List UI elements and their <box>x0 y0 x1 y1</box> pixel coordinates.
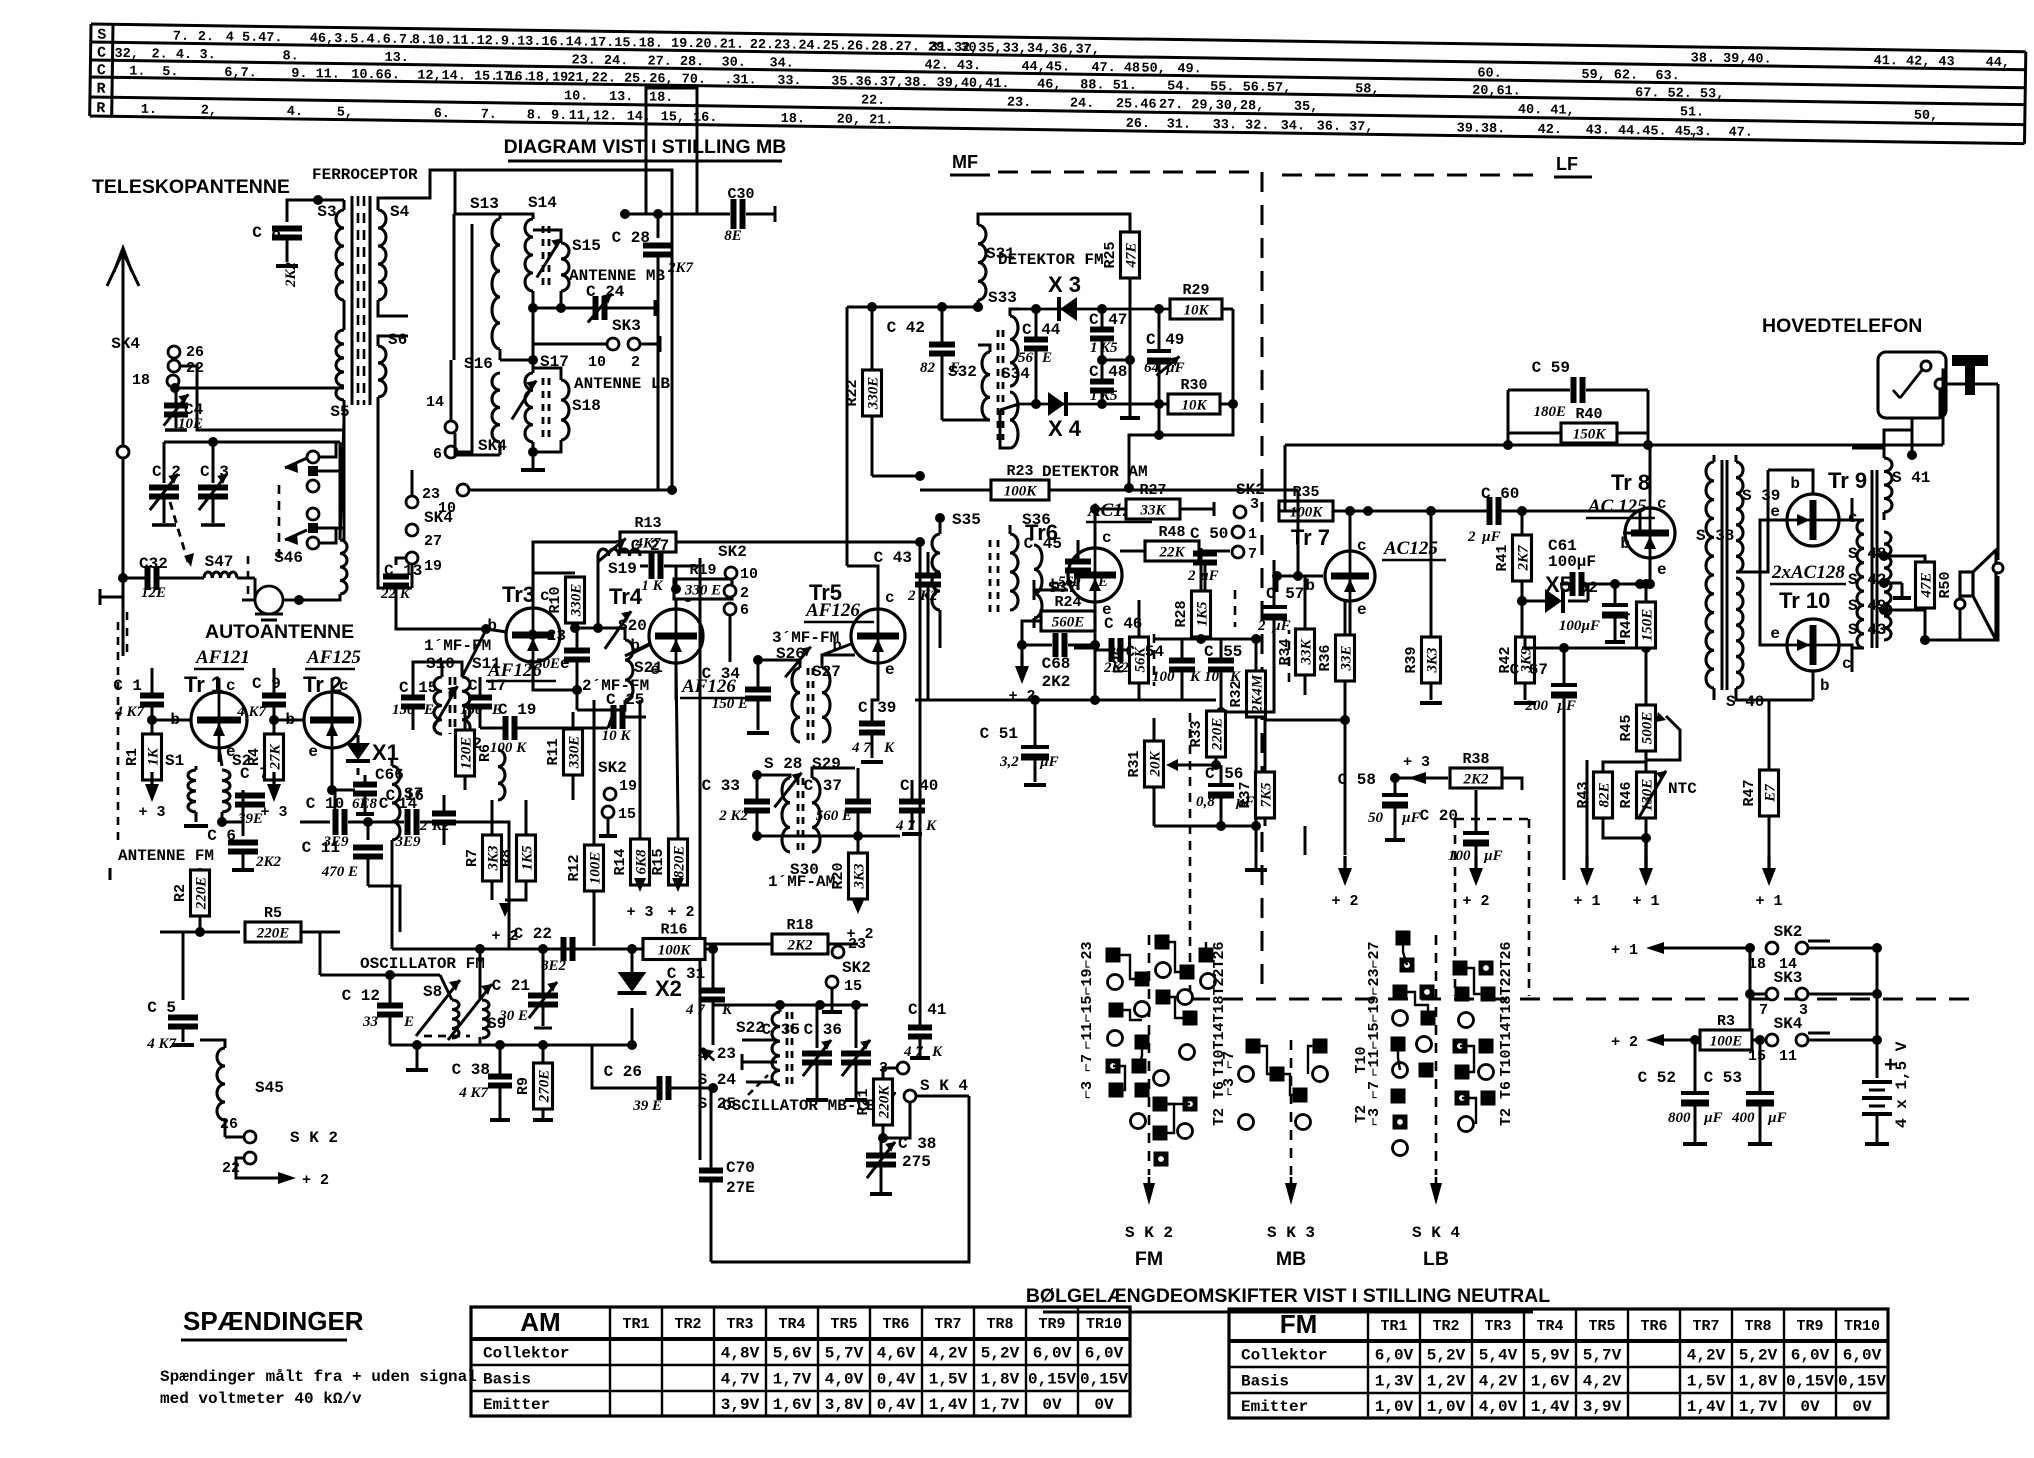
svg-text:C 52: C 52 <box>1638 1069 1676 1087</box>
svg-text:NTC: NTC <box>1668 780 1697 798</box>
svg-text:1: 1 <box>1248 526 1257 543</box>
svg-text:C 5: C 5 <box>147 999 176 1017</box>
svg-text:5,6V: 5,6V <box>773 1345 812 1363</box>
svg-text:3,9V: 3,9V <box>721 1396 760 1414</box>
wire LF dashed boundary horizontal <box>1282 174 1545 177</box>
svg-text:S K 4: S K 4 <box>1412 1224 1460 1242</box>
svg-text:R28: R28 <box>1173 600 1190 627</box>
svg-text:R6: R6 <box>477 744 494 762</box>
wire fb left down <box>1279 445 1285 511</box>
svg-text:C 15: C 15 <box>399 679 437 697</box>
svg-text:27. 28.: 27. 28. <box>647 54 704 70</box>
svg-text:38. 39,40.: 38. 39,40. <box>1691 51 1772 67</box>
svg-text:67. 52. 53,: 67. 52. 53, <box>1635 86 1724 102</box>
svg-text:46,3.5.4.6.7.: 46,3.5.4.6.7. <box>310 32 416 49</box>
svg-text:3,2: 3,2 <box>999 754 1019 770</box>
svg-text:C 20: C 20 <box>1420 807 1458 825</box>
svg-text:330E: 330E <box>866 377 882 411</box>
svg-text:3K3: 3K3 <box>1425 647 1441 674</box>
svg-text:S13: S13 <box>470 195 499 213</box>
coil S7 <box>392 766 400 840</box>
svg-text:10K: 10K <box>1183 303 1209 319</box>
resistor R2 <box>199 868 202 874</box>
wire +1 col <box>1563 647 1566 650</box>
resistor R31 <box>1145 741 1164 787</box>
svg-text:10.: 10. <box>564 89 589 104</box>
wire Tr10 base down <box>1812 671 1815 700</box>
wire C61-Tr8e <box>1588 583 1650 586</box>
svg-text:88. 51.: 88. 51. <box>1080 78 1137 94</box>
wire R37 bottom <box>1304 826 1307 855</box>
svg-text:C 49: C 49 <box>1146 331 1184 349</box>
wire Tr10 c <box>1839 645 1852 648</box>
svg-text:1K: 1K <box>146 747 162 766</box>
contact SK2 23 <box>832 946 844 958</box>
svg-text:2: 2 <box>1467 529 1476 545</box>
svg-text:1,4V: 1,4V <box>929 1396 968 1414</box>
svg-text:c: c <box>226 677 236 695</box>
wire R38 left <box>1395 777 1424 780</box>
transistor Tr2 <box>304 692 360 748</box>
coil S3 <box>336 210 344 300</box>
svg-text:1,4V: 1,4V <box>1687 1398 1726 1416</box>
svg-text:R32: R32 <box>1228 680 1245 707</box>
svg-text:6,0V: 6,0V <box>1375 1347 1414 1365</box>
wire X5 to R44 node <box>1522 647 1646 650</box>
svg-text:⌐11: ⌐11 <box>1079 1022 1096 1049</box>
svg-text:S 43: S 43 <box>1848 621 1886 639</box>
wire osc top line <box>392 948 643 951</box>
wire e Tr3 <box>533 662 577 690</box>
svg-text:C: C <box>97 62 106 79</box>
coil S45 <box>217 1048 225 1120</box>
svg-text:470 E: 470 E <box>321 864 358 880</box>
svg-text:S1: S1 <box>165 752 184 770</box>
coil S18 variable <box>561 380 569 440</box>
svg-text:200: 200 <box>1525 698 1549 714</box>
svg-text:22: 22 <box>186 360 204 377</box>
svg-text:43. 44.45. 45,: 43. 44.45. 45, <box>1586 123 1700 140</box>
coil S12 <box>498 750 505 800</box>
resistor R7 <box>483 835 502 881</box>
svg-text:10: 10 <box>588 354 606 371</box>
svg-text:TR2: TR2 <box>674 1316 701 1333</box>
svg-text:1,5V: 1,5V <box>929 1371 968 1389</box>
svg-text:7: 7 <box>1759 1002 1768 1019</box>
svg-text:⌐3: ⌐3 <box>1079 1081 1096 1099</box>
svg-text:4,7V: 4,7V <box>721 1371 760 1389</box>
svg-text:Basis: Basis <box>1241 1373 1289 1391</box>
wire detector ct <box>1102 359 1130 362</box>
svg-text:36. 37,: 36. 37, <box>1317 120 1374 136</box>
wire Tr8 b line <box>1623 511 1640 533</box>
svg-text:100K: 100K <box>1004 484 1038 500</box>
svg-text:X 4: X 4 <box>1048 416 1082 441</box>
svg-text:2.: 2. <box>198 30 214 45</box>
svg-text:5,7V: 5,7V <box>825 1345 864 1363</box>
svg-text:47. 48.: 47. 48. <box>1091 61 1148 77</box>
svg-text:⌐3: ⌐3 <box>1366 1108 1383 1126</box>
svg-text:39E: 39E <box>237 811 263 827</box>
wire SK4 22 line <box>180 366 344 430</box>
svg-text:K: K <box>925 818 937 834</box>
capacitor C57b <box>1276 576 1279 592</box>
svg-text:82E: 82E <box>1597 782 1613 807</box>
svg-text:100: 100 <box>1152 669 1175 685</box>
wire MF dashed boundary horizontal <box>998 171 1256 174</box>
svg-text:4,0V: 4,0V <box>825 1371 864 1389</box>
autoantenne plug <box>255 586 283 614</box>
svg-text:MF: MF <box>952 152 978 172</box>
svg-text:26: 26 <box>220 1116 238 1133</box>
wire Tr7 e down <box>1349 601 1352 648</box>
svg-text:4,2V: 4,2V <box>1479 1373 1518 1391</box>
resistor R32 <box>1247 671 1266 717</box>
coil S1 <box>188 770 196 812</box>
svg-text:50,: 50, <box>1141 62 1166 77</box>
svg-text:S 41: S 41 <box>1892 469 1930 487</box>
wiper R31 <box>1170 764 1216 767</box>
svg-text:S K 3: S K 3 <box>1267 1224 1315 1242</box>
svg-text:34.: 34. <box>1281 119 1306 134</box>
wire MF dashed boundary vertical <box>1261 172 1264 996</box>
svg-text:6,7.: 6,7. <box>224 66 257 81</box>
svg-text:b: b <box>1790 475 1800 493</box>
svg-text:32,: 32, <box>114 47 139 62</box>
transistor Tr3 <box>506 608 560 662</box>
driver transformer core <box>1721 460 1724 690</box>
svg-text:220E: 220E <box>194 877 210 911</box>
svg-text:R48: R48 <box>1158 524 1185 541</box>
contact SK4 3 <box>897 1062 909 1074</box>
svg-text:5,2V: 5,2V <box>1427 1347 1466 1365</box>
svg-text:b: b <box>1820 677 1830 695</box>
wire det input <box>847 306 975 309</box>
svg-text:Tr 9: Tr 9 <box>1828 468 1867 493</box>
svg-text:S K 2: S K 2 <box>290 1129 338 1147</box>
wire bottom dashed boundary <box>1190 998 1982 1001</box>
svg-text:R4: R4 <box>246 748 263 766</box>
svg-text:S32: S32 <box>948 363 977 381</box>
svg-text:55. 56.57,: 55. 56.57, <box>1210 80 1291 96</box>
svg-text:C 37: C 37 <box>804 777 842 795</box>
svg-text:SK2: SK2 <box>598 759 627 777</box>
svg-text:K: K <box>931 1044 943 1060</box>
svg-text:Tr3: Tr3 <box>502 582 535 607</box>
svg-text:S47: S47 <box>205 553 234 571</box>
svg-text:c: c <box>1102 529 1112 547</box>
svg-text:T2: T2 <box>1211 1108 1228 1126</box>
svg-text:Collektor: Collektor <box>1241 1347 1327 1365</box>
svg-text:SK3: SK3 <box>612 317 641 335</box>
svg-text:R46: R46 <box>1618 781 1635 808</box>
svg-text:C 38: C 38 <box>452 1061 490 1079</box>
svg-text:47.: 47. <box>1729 125 1754 140</box>
svg-text:T18: T18 <box>1211 995 1228 1022</box>
wire sk2 contacts right <box>1234 506 1246 518</box>
svg-text:560 E: 560 E <box>816 808 852 824</box>
svg-text:C 8: C 8 <box>252 224 281 242</box>
svg-text:R5: R5 <box>264 905 282 922</box>
diode X4 <box>1019 403 1170 406</box>
resistor R28 <box>1192 591 1211 637</box>
svg-text:R45: R45 <box>1618 714 1635 741</box>
svg-text:+ 2: + 2 <box>1462 893 1489 910</box>
svg-text:1,6V: 1,6V <box>1531 1373 1570 1391</box>
svg-text:24.: 24. <box>1070 97 1095 112</box>
svg-text:0,15V: 0,15V <box>1080 1371 1128 1389</box>
wire osc bottom line <box>390 1044 632 1047</box>
svg-text:3.: 3. <box>199 48 215 63</box>
svg-text:33: 33 <box>362 1014 379 1030</box>
svg-text:b: b <box>832 637 842 655</box>
svg-text:Spændinger målt fra + uden sig: Spændinger målt fra + uden signal <box>160 1368 477 1386</box>
svg-text:⌐7: ⌐7 <box>1366 1081 1383 1099</box>
svg-text:C 43: C 43 <box>874 549 912 567</box>
svg-text:SK3: SK3 <box>1774 969 1803 987</box>
output transformer core <box>1871 470 1874 648</box>
svg-text:BØLGELÆNGDEOMSKIFTER VIST I ST: BØLGELÆNGDEOMSKIFTER VIST I STILLING NEU… <box>1026 1285 1550 1307</box>
contact 23c <box>406 496 418 508</box>
diode X1 <box>357 735 360 745</box>
svg-text:47E: 47E <box>1124 242 1140 268</box>
svg-text:5.: 5. <box>162 65 178 80</box>
headphone jack contacts <box>1921 361 1931 371</box>
svg-text:22K: 22K <box>1158 545 1185 561</box>
svg-text:µF: µF <box>1556 698 1576 714</box>
svg-text:58,: 58, <box>1355 82 1380 97</box>
svg-text:2,: 2, <box>201 104 217 119</box>
svg-text:C 11: C 11 <box>302 839 340 857</box>
wire R41 to Tr8 <box>1522 510 1640 513</box>
svg-text:DETEKTOR FM: DETEKTOR FM <box>998 251 1104 269</box>
svg-text:2: 2 <box>631 354 640 371</box>
svg-text:21,22. 25.: 21,22. 25. <box>567 71 648 87</box>
resistor R16 <box>643 939 705 960</box>
svg-text:C 47: C 47 <box>1089 311 1127 329</box>
svg-text:120E: 120E <box>459 737 475 770</box>
wire C59 legs <box>1507 390 1510 445</box>
svg-text:1´MF-AM: 1´MF-AM <box>768 873 835 891</box>
svg-text:6,0V: 6,0V <box>1791 1347 1830 1365</box>
svg-text:2: 2 <box>907 588 916 604</box>
svg-text:+ 2: + 2 <box>302 1172 329 1189</box>
wire S45 to SK2-26 <box>225 1136 244 1139</box>
wire AGC bus y700 <box>915 699 1216 702</box>
svg-text:11: 11 <box>1779 1048 1797 1065</box>
svg-text:33. 32.: 33. 32. <box>1213 118 1270 134</box>
svg-text:4,0V: 4,0V <box>1479 1398 1518 1416</box>
svg-text:23: 23 <box>422 486 440 503</box>
svg-text:3,8V: 3,8V <box>825 1396 864 1414</box>
svg-text:1,7V: 1,7V <box>773 1371 812 1389</box>
svg-text:TR6: TR6 <box>882 1316 909 1333</box>
contact SK2 26 bottom <box>244 1131 256 1143</box>
wire Tr2 emitter down <box>331 748 334 790</box>
svg-text:µF: µF <box>1401 810 1421 826</box>
svg-text:S33: S33 <box>988 289 1017 307</box>
svg-text:2: 2 <box>419 818 428 834</box>
svg-text:46,: 46, <box>1037 78 1062 93</box>
svg-text:0,15V: 0,15V <box>1786 1373 1834 1391</box>
wire S15 junction <box>556 303 566 313</box>
svg-text:R16: R16 <box>660 922 687 939</box>
svg-text:4,2V: 4,2V <box>1687 1347 1726 1365</box>
svg-text:AC 125: AC 125 <box>1587 496 1647 517</box>
svg-text:150K: 150K <box>1573 427 1607 443</box>
svg-text:4 7: 4 7 <box>685 1002 705 1018</box>
svg-text:AF126: AF126 <box>805 600 860 621</box>
resistor R34 <box>1296 629 1315 675</box>
svg-text:42.: 42. <box>1538 123 1563 138</box>
svg-text:OSCILLATOR FM: OSCILLATOR FM <box>360 955 485 973</box>
svg-text:7: 7 <box>1248 546 1257 563</box>
svg-text:R7: R7 <box>464 849 481 867</box>
svg-text:14: 14 <box>426 394 444 411</box>
svg-text:SK4: SK4 <box>111 335 140 353</box>
svg-text:S4: S4 <box>390 203 410 221</box>
svg-text:6,0V: 6,0V <box>1085 1345 1124 1363</box>
svg-text:23. 24.: 23. 24. <box>571 53 628 69</box>
svg-text:33.: 33. <box>777 74 802 89</box>
svg-text:1: 1 <box>1090 340 1098 356</box>
svg-text:4 x 1,5 V: 4 x 1,5 V <box>1893 1041 1911 1128</box>
resistor R12 <box>585 845 604 891</box>
svg-text:C30: C30 <box>727 186 754 203</box>
svg-text:0,15V: 0,15V <box>1838 1373 1886 1391</box>
svg-text:R44: R44 <box>1618 611 1635 638</box>
wire tap S42 gnd <box>1901 583 1904 596</box>
variable arrow osc <box>700 1048 716 1062</box>
svg-text:47E: 47E <box>1919 572 1935 598</box>
svg-text:C32: C32 <box>139 555 168 573</box>
wire osc loop bottom <box>711 1096 969 1262</box>
svg-text:C 12: C 12 <box>342 987 380 1005</box>
svg-text:⌐19: ⌐19 <box>1079 968 1096 995</box>
svg-text:C 41: C 41 <box>908 1001 946 1019</box>
svg-text:+ 2: + 2 <box>1611 1034 1638 1051</box>
svg-text:e: e <box>650 661 660 679</box>
svg-text:TR6: TR6 <box>1640 1318 1667 1335</box>
wire Tr6 base <box>1034 589 1068 592</box>
resistor R44 <box>1637 602 1656 648</box>
svg-text:C 16: C 16 <box>386 787 424 805</box>
wire fb to R35 <box>1284 510 1287 513</box>
svg-text:4,2V: 4,2V <box>929 1345 968 1363</box>
wire Tr7 b <box>1298 575 1323 578</box>
svg-text:8.: 8. <box>282 49 298 64</box>
svg-text:T22: T22 <box>1498 968 1515 995</box>
svg-text:1K5: 1K5 <box>1195 601 1211 627</box>
svg-text:22.: 22. <box>861 94 886 109</box>
svg-text:TR1: TR1 <box>1380 1318 1407 1335</box>
svg-text:S15: S15 <box>572 237 601 255</box>
svg-text:E: E <box>403 1014 414 1030</box>
component location index table <box>90 24 2026 145</box>
svg-text:1,8V: 1,8V <box>1739 1373 1778 1391</box>
capacitor C32 <box>123 577 146 580</box>
svg-text:SK4: SK4 <box>424 509 453 527</box>
svg-text:⌐23: ⌐23 <box>1079 941 1096 968</box>
transistor Tr6 <box>1068 548 1122 602</box>
transistor Tr5 <box>851 609 905 663</box>
svg-text:R38: R38 <box>1462 751 1489 768</box>
resistor R48 <box>1145 541 1199 561</box>
svg-text:TR4: TR4 <box>1536 1318 1563 1335</box>
capacitor C11 <box>367 822 370 840</box>
wire C68 connect <box>1074 647 1095 650</box>
svg-text:25.46: 25.46 <box>1116 97 1157 113</box>
contact SK2 22 bottom <box>244 1152 256 1164</box>
svg-text:330E: 330E <box>567 736 583 770</box>
svg-text:27. 29,30,28,: 27. 29,30,28, <box>1159 98 1265 115</box>
svg-text:10 K: 10 K <box>602 728 632 744</box>
headphone jack box <box>1878 352 1946 418</box>
svg-text:AF125: AF125 <box>306 647 361 668</box>
wire C1 to base <box>152 718 191 720</box>
resistor R9 <box>534 1063 553 1109</box>
transistor Tr10 <box>1787 619 1839 671</box>
svg-text:Tr 10: Tr 10 <box>1779 588 1830 613</box>
svg-text:e: e <box>1357 601 1367 619</box>
svg-text:2K2: 2K2 <box>1462 772 1489 788</box>
svg-text:19: 19 <box>424 558 442 575</box>
resistor R50 <box>1916 562 1935 608</box>
svg-text:330E: 330E <box>569 584 585 618</box>
wire sec taps <box>1884 555 1912 558</box>
coil S5 <box>336 330 344 400</box>
wire Tr8 e down <box>1649 558 1652 584</box>
svg-text:Tr 1: Tr 1 <box>184 672 223 697</box>
wire top loop <box>646 88 697 214</box>
svg-text:c: c <box>1357 537 1367 555</box>
core S22 dashes <box>786 1012 789 1085</box>
svg-text:+ 2: + 2 <box>846 926 873 943</box>
svg-text:SK2: SK2 <box>718 543 747 561</box>
svg-text:0V: 0V <box>1042 1396 1062 1414</box>
svg-text:+ 3: + 3 <box>260 804 287 821</box>
svg-text:2K2: 2K2 <box>1042 673 1071 691</box>
svg-text:R20: R20 <box>830 862 847 889</box>
svg-text:59, 62.: 59, 62. <box>1581 68 1638 84</box>
switch contact SK4-6 <box>445 446 457 458</box>
wire junction to S20 <box>575 627 625 630</box>
resistor R22 <box>863 370 882 416</box>
resistor R10 <box>533 573 575 608</box>
wire speaker loop <box>1943 370 1946 445</box>
svg-text:34.: 34. <box>769 56 794 71</box>
svg-text:54.: 54. <box>1167 79 1192 94</box>
svg-text:50: 50 <box>1368 810 1384 826</box>
svg-text:⌐7: ⌐7 <box>1221 1051 1238 1069</box>
dashed MF-LF bottom <box>1189 713 1192 996</box>
svg-text:41. 42, 43: 41. 42, 43 <box>1874 54 1955 70</box>
svg-text:C 39: C 39 <box>858 699 896 717</box>
resistor R21 <box>874 1079 893 1125</box>
svg-text:39.38.: 39.38. <box>1457 122 1506 138</box>
resistor R24 <box>1094 602 1097 645</box>
svg-text:C70: C70 <box>726 1159 755 1177</box>
wire feedback bus <box>1285 444 1508 447</box>
wire gang bus <box>164 441 340 444</box>
wire C14 to osc <box>420 822 509 949</box>
svg-text:C 22: C 22 <box>514 925 552 943</box>
svg-text:26: 26 <box>186 344 204 361</box>
contact SK2 10 <box>725 567 737 579</box>
svg-text:R9: R9 <box>515 1077 532 1095</box>
svg-text:5,4V: 5,4V <box>1479 1347 1518 1365</box>
resistor R46 NTC <box>1637 772 1656 818</box>
